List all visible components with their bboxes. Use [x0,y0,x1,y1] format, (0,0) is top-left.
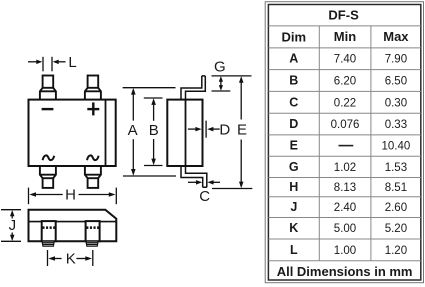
dimension L [28,57,66,72]
svg-text:K: K [66,251,76,268]
svg-text:Dim: Dim [282,30,307,45]
table min column values [331,54,360,257]
svg-text:1.20: 1.20 [385,245,407,257]
svg-text:7.90: 7.90 [385,54,407,66]
table max column values [382,54,411,257]
svg-text:H: H [289,180,298,194]
svg-text:Min: Min [334,29,356,44]
svg-text:0.33: 0.33 [385,119,407,131]
dimension D [188,121,220,138]
dimension A [123,88,176,176]
svg-text:5.20: 5.20 [385,223,407,235]
svg-text:C: C [289,95,298,109]
table outer border [265,2,423,283]
table header row [282,29,410,45]
svg-text:0.22: 0.22 [334,97,356,109]
svg-text:D: D [219,121,230,138]
svg-text:C: C [199,188,210,205]
svg-text:8.51: 8.51 [385,182,407,194]
svg-text:All Dimensions in mm: All Dimensions in mm [277,264,413,279]
svg-text:E: E [290,139,298,153]
svg-text:D: D [289,117,298,131]
table inner frame [268,5,420,281]
pin P4 bottom-right [85,167,101,188]
side view top lead [181,76,205,100]
bottom view pin B [86,221,100,246]
svg-text:DF-S: DF-S [328,8,359,23]
dimension C [188,181,220,183]
table dim letters column [289,52,299,257]
svg-text:8.13: 8.13 [334,182,356,194]
svg-text:0.076: 0.076 [331,119,360,131]
AC tilde mark left [43,155,55,160]
dimension E [212,82,252,189]
svg-text:6.50: 6.50 [385,76,407,88]
svg-text:B: B [289,74,298,88]
svg-text:7.40: 7.40 [334,54,356,66]
side view body middle line [185,100,187,166]
svg-text:0.30: 0.30 [385,97,407,109]
svg-text:G: G [214,59,226,76]
bottom view body [29,210,117,242]
dimension K [48,250,93,266]
front view body [29,100,116,166]
svg-text:2.60: 2.60 [385,202,407,214]
svg-text:J: J [9,217,17,234]
table grid lines [268,26,420,261]
svg-text:J: J [290,200,297,214]
svg-text:2.40: 2.40 [334,202,356,214]
minus terminal mark [42,108,54,110]
bottom view parting line [29,221,116,223]
dimension G [212,76,252,91]
bottom view pin A [42,221,56,246]
side view body [167,100,202,166]
svg-text:Max: Max [383,29,409,44]
side view bottom lead [181,166,207,187]
svg-text:10.40: 10.40 [382,141,411,153]
plus terminal mark [87,102,99,115]
front view body edge line [105,100,107,166]
svg-text:A: A [128,122,138,139]
svg-text:K: K [289,221,298,235]
svg-text:A: A [289,52,298,66]
svg-text:H: H [65,187,76,204]
svg-text:5.00: 5.00 [334,223,356,235]
svg-text:E: E [237,122,247,139]
svg-text:1.02: 1.02 [334,162,356,174]
svg-text:L: L [68,54,76,71]
dimension B [144,98,163,166]
svg-text:1.00: 1.00 [334,245,356,257]
svg-text:L: L [290,243,298,257]
table E row dash [339,145,354,147]
svg-text:6.20: 6.20 [334,76,356,88]
svg-text:G: G [289,160,299,174]
pin P2 top-right [85,76,101,100]
AC tilde mark right [87,155,99,160]
svg-text:1.53: 1.53 [385,162,407,174]
pin P3 bottom-left [40,167,56,188]
svg-text:B: B [149,122,159,139]
dimension J [1,210,21,242]
pin P1 top-left [40,76,56,100]
dimension H [29,188,117,205]
